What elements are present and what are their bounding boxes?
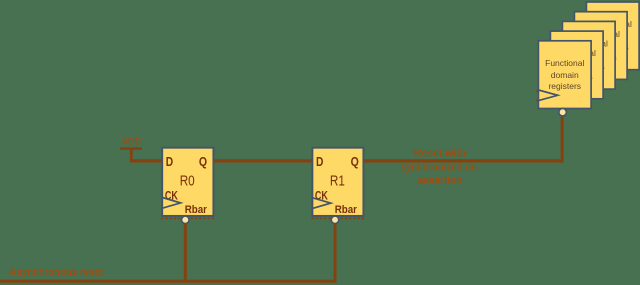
functional domain register card 4 xyxy=(574,12,627,80)
clock wedge xyxy=(551,80,570,91)
wire: vertical riser to register stack bubble xyxy=(561,114,564,162)
svg-text:Q: Q xyxy=(351,154,359,169)
svg-text:D: D xyxy=(166,154,173,169)
svg-text:R0: R0 xyxy=(180,174,195,190)
clock wedge xyxy=(539,90,558,101)
svg-text:Asynchronous reset: Asynchronous reset xyxy=(9,267,103,278)
bubble R0 Rbar xyxy=(182,216,190,224)
wire: R0 Rbar riser xyxy=(184,221,187,282)
functional domain register card 2 xyxy=(550,31,603,99)
svg-text:Rbar: Rbar xyxy=(335,204,358,216)
clock wedge xyxy=(575,61,594,72)
dashed line under R1 xyxy=(312,217,365,219)
wire: R1 Q to functional registers xyxy=(362,159,564,162)
svg-text:D: D xyxy=(316,154,323,169)
clock wedge xyxy=(587,51,606,62)
functional domain register card 5 (backmost) xyxy=(586,2,639,70)
wire: R0 Q to R1 D xyxy=(213,159,313,162)
svg-text:Q: Q xyxy=(199,154,207,169)
functional domain register card 3 xyxy=(562,21,615,89)
svg-text:Rbar: Rbar xyxy=(185,204,208,216)
svg-text:Reset with: Reset with xyxy=(414,147,466,159)
svg-text:domain: domain xyxy=(551,70,579,80)
svg-text:Functional: Functional xyxy=(545,58,584,68)
flip-flop R0 xyxy=(161,148,214,224)
svg-text:synchronized de-: synchronized de- xyxy=(400,162,480,174)
wire: VDD to R0 D input xyxy=(130,159,164,162)
wire: R1 Rbar riser xyxy=(334,221,337,282)
clock wedge R1 xyxy=(313,198,331,209)
svg-text:VDD: VDD xyxy=(122,136,142,146)
power symbol VDD xyxy=(120,136,142,149)
svg-text:assertion: assertion xyxy=(418,175,462,187)
label: Reset with synchronized de-assertion xyxy=(400,147,480,186)
clock wedge xyxy=(563,71,582,82)
rust tick marks at wedge tips xyxy=(536,90,538,92)
wire: VDD stem xyxy=(130,149,133,161)
bubble R1 Rbar xyxy=(331,216,339,224)
dashed line under R0 xyxy=(161,217,214,219)
functional domain register card 1 (front) xyxy=(536,41,591,116)
svg-text:R1: R1 xyxy=(330,174,345,190)
bubble register stack xyxy=(559,108,567,116)
svg-text:registers: registers xyxy=(548,81,581,91)
flip-flop R1 xyxy=(312,148,365,224)
clock wedge R0 xyxy=(162,198,180,209)
wire: asynchronous reset horizontal xyxy=(0,280,336,283)
